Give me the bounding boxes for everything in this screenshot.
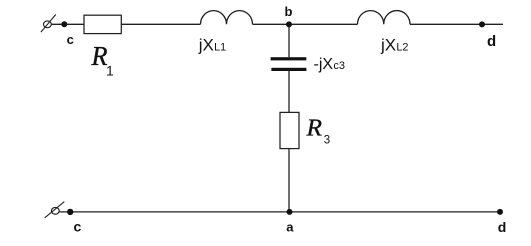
svg-text:d: d	[498, 219, 507, 235]
svg-text:c: c	[74, 219, 82, 235]
svg-text:b: b	[285, 4, 293, 19]
svg-text:a: a	[286, 219, 294, 234]
svg-text:1: 1	[106, 63, 114, 79]
svg-text:R: R	[305, 115, 322, 142]
svg-text:c: c	[67, 32, 74, 47]
svg-text:d: d	[487, 33, 496, 50]
svg-text:3: 3	[324, 135, 330, 147]
